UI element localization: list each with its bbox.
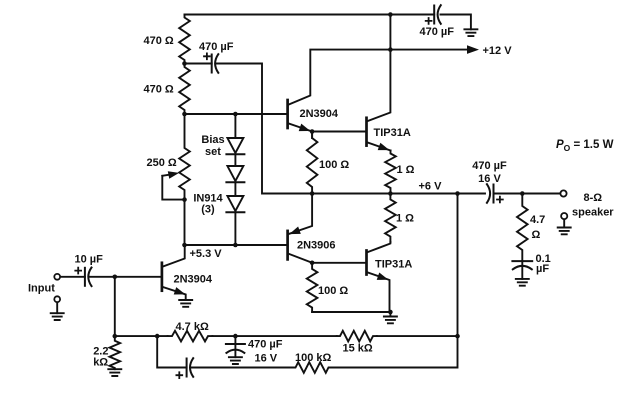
svg-text:kΩ: kΩ xyxy=(93,357,108,369)
svg-text:8-Ω: 8-Ω xyxy=(584,192,603,204)
svg-text:2N3906: 2N3906 xyxy=(297,239,336,251)
svg-text:15 kΩ: 15 kΩ xyxy=(343,342,373,354)
svg-text:470 µF: 470 µF xyxy=(420,26,455,38)
svg-text:100 kΩ: 100 kΩ xyxy=(295,352,332,364)
svg-text:470 µF: 470 µF xyxy=(199,41,234,53)
svg-text:speaker: speaker xyxy=(572,206,614,218)
svg-text:250 Ω: 250 Ω xyxy=(147,157,177,169)
svg-text:TIP31A: TIP31A xyxy=(375,258,412,270)
svg-text:TIP31A: TIP31A xyxy=(374,127,411,139)
svg-text:Input: Input xyxy=(28,283,55,295)
svg-text:16 V: 16 V xyxy=(478,173,501,185)
svg-text:2N3904: 2N3904 xyxy=(174,274,213,286)
svg-text:Bias: Bias xyxy=(201,134,224,146)
svg-text:470 µF: 470 µF xyxy=(472,160,507,172)
svg-text:4.7: 4.7 xyxy=(530,214,545,226)
svg-text:+6 V: +6 V xyxy=(419,181,443,193)
svg-text:(3): (3) xyxy=(201,204,215,216)
svg-text:4.7 kΩ: 4.7 kΩ xyxy=(176,321,209,333)
svg-text:+5.3 V: +5.3 V xyxy=(190,248,223,260)
svg-text:Ω: Ω xyxy=(532,229,541,241)
svg-text:+12 V: +12 V xyxy=(483,45,513,57)
svg-text:16 V: 16 V xyxy=(255,352,278,364)
svg-text:100 Ω: 100 Ω xyxy=(318,285,348,297)
svg-text:µF: µF xyxy=(536,263,549,275)
svg-text:470 Ω: 470 Ω xyxy=(144,35,174,47)
svg-text:2N3904: 2N3904 xyxy=(300,108,339,120)
svg-text:IN914: IN914 xyxy=(193,192,223,204)
svg-text:10 µF: 10 µF xyxy=(75,254,104,266)
svg-text:100 Ω: 100 Ω xyxy=(319,159,349,171)
svg-text:1 Ω: 1 Ω xyxy=(396,212,414,224)
svg-text:set: set xyxy=(205,146,221,158)
svg-text:470 µF: 470 µF xyxy=(248,339,283,351)
svg-text:470 Ω: 470 Ω xyxy=(144,84,174,96)
svg-text:1 Ω: 1 Ω xyxy=(397,164,415,176)
